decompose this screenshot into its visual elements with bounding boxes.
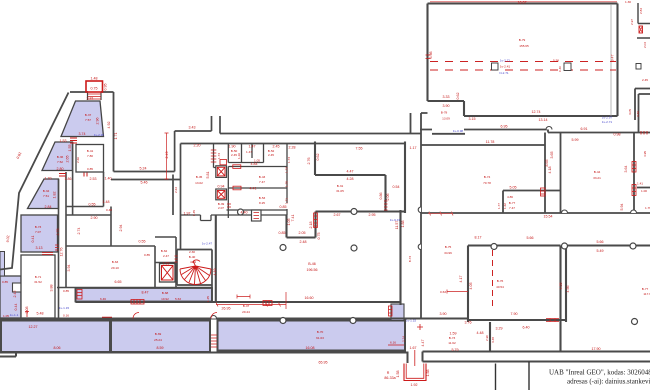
svg-text:2.31: 2.31 (87, 97, 94, 101)
svg-text:4.05: 4.05 (469, 283, 473, 290)
svg-text:31.52: 31.52 (34, 280, 42, 284)
svg-text:3.33: 3.33 (443, 95, 450, 99)
svg-text:15.54: 15.54 (544, 215, 553, 219)
svg-text:7.47: 7.47 (259, 180, 265, 184)
svg-text:B-73: B-73 (449, 336, 456, 340)
svg-text:86-33a: 86-33a (384, 376, 395, 380)
svg-text:1.59: 1.59 (450, 332, 457, 336)
svg-text:0.85: 0.85 (2, 280, 8, 284)
svg-text:B-76: B-76 (497, 279, 504, 283)
svg-text:1.77: 1.77 (497, 203, 501, 209)
svg-text:3.29: 3.29 (496, 327, 503, 331)
svg-text:6.98: 6.98 (429, 52, 433, 59)
red door marks B-45 (211, 150, 217, 162)
WC cluster walls (181, 144, 288, 221)
svg-text:11.78: 11.78 (486, 140, 495, 144)
svg-text:33.21: 33.21 (593, 176, 601, 180)
svg-text:7.07: 7.07 (35, 230, 41, 234)
svg-text:0.41: 0.41 (31, 236, 35, 243)
svg-text:19.92: 19.92 (161, 297, 169, 301)
svg-text:0.48: 0.48 (106, 208, 112, 212)
red hatch divider corridor (211, 335, 217, 347)
svg-text:B-37: B-37 (85, 113, 92, 117)
svg-text:1.71: 1.71 (285, 198, 289, 204)
svg-text:31.05: 31.05 (336, 189, 344, 193)
svg-text:2.53: 2.53 (90, 177, 97, 181)
svg-text:65.95: 65.95 (319, 361, 328, 365)
svg-text:4.84: 4.84 (251, 162, 258, 166)
svg-text:1.97: 1.97 (184, 212, 191, 216)
svg-text:4.56: 4.56 (566, 286, 570, 293)
corridor B-68 shaded (76, 288, 213, 302)
svg-text:6.46: 6.46 (100, 297, 106, 301)
svg-text:2.75: 2.75 (56, 229, 60, 236)
svg-text:2.20: 2.20 (194, 144, 201, 148)
svg-text:0.55: 0.55 (139, 240, 146, 244)
pilaster box below WC rooms (252, 210, 262, 221)
bottom walls left (0, 321, 423, 364)
svg-text:0.62: 0.62 (316, 154, 320, 161)
svg-text:B-72: B-72 (408, 255, 412, 262)
top right small rooms walls (637, 3, 650, 38)
svg-text:adresas (-ai): dainius.stankev: adresas (-ai): dainius.stankevicius (567, 378, 650, 386)
svg-text:4.95: 4.95 (643, 151, 647, 157)
svg-text:1.53: 1.53 (60, 139, 67, 143)
svg-text:B-63: B-63 (112, 260, 119, 264)
red door marks B-37 (59, 138, 87, 177)
left mid interior walls (57, 142, 212, 318)
svg-text:1.82: 1.82 (53, 192, 57, 199)
svg-text:2.84: 2.84 (45, 205, 52, 209)
svg-text:N-2.71: N-2.71 (499, 71, 509, 75)
svg-text:8.59: 8.59 (157, 346, 164, 350)
svg-text:1.05: 1.05 (287, 219, 291, 226)
svg-text:155.65: 155.65 (519, 44, 529, 48)
svg-text:12.76: 12.76 (60, 248, 64, 257)
small square right of wall (636, 64, 641, 70)
svg-text:B-31: B-31 (337, 184, 344, 188)
svg-text:4.59: 4.59 (190, 260, 196, 264)
svg-text:6.91: 6.91 (581, 127, 588, 131)
svg-text:1.73: 1.73 (285, 167, 289, 173)
svg-text:3.43: 3.43 (189, 126, 196, 130)
svg-text:5.05: 5.05 (510, 186, 517, 190)
svg-text:8.25: 8.25 (259, 201, 265, 205)
svg-text:8.65: 8.65 (545, 160, 549, 167)
red hatch boxes on right wall x=634 (632, 162, 636, 196)
red dim line top B-79 (430, 1, 617, 3)
svg-text:3.90: 3.90 (440, 312, 447, 316)
svg-text:7.80: 7.80 (87, 154, 93, 158)
svg-text:1.48: 1.48 (91, 77, 98, 81)
svg-text:4.41: 4.41 (250, 187, 257, 191)
vestibule shaded near B-70 (391, 304, 404, 321)
svg-text:1v-1.15: 1v-1.15 (59, 306, 70, 310)
svg-text:11.62: 11.62 (448, 341, 456, 345)
grey dimension line right (610, 4, 612, 116)
svg-text:UAB "Inreal GEO", kodas: 30260: UAB "Inreal GEO", kodas: 302604843, PV (549, 369, 650, 377)
svg-text:7.41: 7.41 (291, 215, 295, 222)
red hatch B-68 left end (77, 290, 82, 300)
svg-text:B-45: B-45 (196, 175, 203, 179)
svg-text:0.40: 0.40 (558, 66, 562, 72)
room B-34 shaded (28, 179, 59, 209)
svg-text:B-34: B-34 (43, 189, 50, 193)
red door marks near x=228 (227, 204, 231, 207)
svg-text:6.40: 6.40 (523, 326, 530, 330)
svg-text:8.47: 8.47 (142, 291, 149, 295)
svg-text:1.92: 1.92 (411, 383, 418, 387)
svg-text:B-74: B-74 (484, 175, 491, 179)
svg-text:13.09: 13.09 (442, 117, 450, 121)
svg-text:5.79: 5.79 (452, 348, 459, 352)
svg-text:B-77: B-77 (509, 201, 516, 205)
red tick line big room (237, 295, 250, 299)
svg-text:1.76: 1.76 (645, 206, 650, 210)
svg-text:1.41: 1.41 (637, 182, 643, 186)
corridor B-69 left shaded (1, 321, 110, 353)
svg-text:3.65: 3.65 (550, 152, 554, 159)
svg-text:7.52: 7.52 (57, 160, 63, 164)
svg-text:5.81: 5.81 (206, 172, 210, 179)
red dim line B-75 (447, 290, 468, 294)
svg-text:0.75: 0.75 (91, 87, 98, 91)
svg-text:6.65: 6.65 (115, 280, 122, 284)
svg-text:29.44: 29.44 (242, 310, 250, 314)
red hatch on wall y=132.5 right end (641, 131, 647, 135)
red hatch B-44 wall (541, 188, 546, 196)
svg-text:2.64: 2.64 (174, 187, 178, 193)
entrance stair steps (88, 94, 101, 99)
svg-text:1.30: 1.30 (625, 0, 631, 4)
shaft S3 (160, 264, 176, 283)
svg-text:1v-1.15: 1v-1.15 (406, 319, 417, 323)
outer walls top-left with diagonal (0, 92, 114, 270)
svg-text:1.17: 1.17 (410, 146, 417, 150)
svg-text:3.76: 3.76 (465, 321, 472, 325)
svg-text:1.75: 1.75 (285, 181, 289, 187)
svg-text:6.16: 6.16 (390, 341, 396, 345)
svg-text:2.65: 2.65 (66, 156, 70, 163)
svg-text:4.40: 4.40 (241, 211, 248, 215)
svg-text:2.28: 2.28 (289, 146, 296, 150)
svg-text:3.13: 3.13 (36, 246, 43, 250)
svg-text:B-75: B-75 (445, 245, 452, 249)
svg-text:1.16: 1.16 (237, 153, 241, 159)
bottom right rooms walls (421, 246, 650, 362)
svg-text:7.90: 7.90 (511, 312, 518, 316)
svg-text:0.44: 0.44 (14, 304, 18, 311)
corridor top-left walls (111, 116, 421, 215)
red ticks B-79 left wall (426, 55, 431, 59)
svg-text:2.74: 2.74 (77, 228, 81, 235)
red hatch B-77 wall (546, 319, 559, 322)
entrance stair stubs (88, 92, 102, 100)
svg-text:12.74: 12.74 (532, 110, 541, 114)
svg-text:3.05: 3.05 (628, 109, 632, 115)
svg-text:1.25: 1.25 (206, 296, 210, 302)
svg-text:117.98: 117.98 (643, 292, 650, 296)
red door arcs corridors (133, 313, 217, 319)
svg-text:4.47: 4.47 (347, 170, 354, 174)
svg-text:5.49: 5.49 (597, 249, 604, 253)
svg-text:B-62: B-62 (161, 249, 168, 253)
title block (496, 362, 650, 390)
red door hatch on x=385.5 (384, 201, 388, 210)
svg-text:5.99: 5.99 (572, 138, 579, 142)
svg-text:5.46: 5.46 (141, 181, 148, 185)
svg-text:2.42: 2.42 (13, 291, 17, 298)
svg-text:12.27: 12.27 (29, 325, 38, 329)
svg-text:B-78: B-78 (441, 111, 448, 115)
svg-text:4.17: 4.17 (459, 276, 463, 283)
svg-text:1.73: 1.73 (287, 157, 291, 163)
svg-text:1.55: 1.55 (68, 145, 72, 152)
svg-text:3.08: 3.08 (25, 307, 29, 314)
svg-text:B-44: B-44 (594, 170, 601, 174)
svg-text:1.88: 1.88 (401, 221, 405, 228)
svg-text:B-77: B-77 (642, 287, 649, 291)
room B-36 shaded (42, 142, 73, 171)
svg-text:3.15: 3.15 (469, 117, 476, 121)
svg-text:1.00: 1.00 (641, 189, 647, 193)
svg-text:B-43: B-43 (259, 175, 266, 179)
stair room walls (177, 144, 212, 303)
svg-text:6.95: 6.95 (501, 125, 508, 129)
room B-78 walls (411, 113, 650, 319)
svg-text:29.10: 29.10 (111, 266, 119, 270)
shaft S2 (216, 189, 227, 200)
svg-text:2.07: 2.07 (218, 206, 224, 210)
svg-text:B-79: B-79 (519, 38, 526, 42)
svg-text:16.08: 16.08 (306, 346, 315, 350)
svg-text:4.92: 4.92 (107, 122, 111, 129)
svg-text:1.90: 1.90 (229, 145, 236, 149)
svg-text:2.45: 2.45 (642, 78, 648, 82)
svg-text:2.04: 2.04 (643, 42, 647, 48)
big room B-46 walls (76, 142, 406, 306)
svg-text:3.46: 3.46 (636, 111, 640, 117)
svg-text:2.96: 2.96 (96, 118, 100, 125)
svg-text:7.51: 7.51 (43, 194, 49, 198)
room B-41 (76, 145, 104, 173)
svg-text:2.49: 2.49 (165, 152, 169, 159)
svg-text:34.96: 34.96 (444, 251, 452, 255)
svg-text:1.62: 1.62 (503, 203, 507, 209)
svg-text:4.47: 4.47 (421, 340, 425, 347)
columns (238, 209, 638, 325)
spiral staircase (180, 260, 211, 285)
svg-text:0.94: 0.94 (218, 185, 225, 189)
svg-text:3.48: 3.48 (491, 337, 495, 343)
red dim line left corridor (165, 133, 169, 179)
svg-text:1.47: 1.47 (249, 145, 256, 149)
red dim on wall y=213.5 (428, 212, 453, 216)
svg-text:2.47: 2.47 (163, 254, 169, 258)
svg-text:5.63: 5.63 (175, 297, 181, 301)
svg-text:3.94: 3.94 (67, 265, 71, 272)
svg-text:B-73: B-73 (35, 225, 42, 229)
svg-text:5.66: 5.66 (527, 236, 534, 240)
svg-text:0.55: 0.55 (89, 203, 96, 207)
svg-text:2.45: 2.45 (273, 145, 280, 149)
svg-text:1v-2.71: 1v-2.71 (602, 120, 613, 124)
svg-text:2.18: 2.18 (309, 222, 313, 229)
svg-text:1v-1.1: 1v-1.1 (10, 313, 19, 317)
svg-text:1.58: 1.58 (396, 371, 400, 378)
room B-71 (21, 255, 55, 318)
room B-73 shaded (21, 215, 58, 252)
svg-text:2.80: 2.80 (57, 167, 64, 171)
svg-text:0.85: 0.85 (87, 167, 93, 171)
svg-text:2.94: 2.94 (119, 225, 123, 232)
svg-text:B-41: B-41 (87, 149, 94, 153)
svg-text:1v-2.47: 1v-2.47 (202, 242, 213, 246)
svg-text:4.28: 4.28 (347, 177, 354, 181)
svg-text:0.85: 0.85 (279, 231, 286, 235)
svg-text:B-46: B-46 (308, 262, 316, 266)
svg-text:2.66: 2.66 (76, 157, 80, 163)
svg-text:1.48: 1.48 (103, 200, 110, 204)
corridor B-70 shaded (218, 321, 406, 351)
svg-text:5.24: 5.24 (140, 167, 147, 171)
red dashed partition B-76 (492, 250, 494, 310)
left sliver shaded (0, 252, 5, 277)
red hatch box top right (639, 26, 643, 33)
long wall above corridors (0, 317, 468, 319)
corridor B-69 right shaded (111, 321, 210, 353)
svg-text:B-68: B-68 (162, 291, 169, 295)
svg-text:17.90: 17.90 (592, 347, 601, 351)
svg-text:13.14: 13.14 (539, 118, 548, 122)
svg-text:2.05: 2.05 (299, 231, 306, 235)
svg-text:2.48: 2.48 (300, 240, 307, 244)
svg-text:0.54: 0.54 (393, 185, 400, 189)
svg-text:8.17: 8.17 (475, 236, 482, 240)
svg-text:2.90: 2.90 (485, 335, 489, 341)
svg-text:3.64: 3.64 (624, 166, 628, 173)
crane box 2 (564, 63, 571, 71)
shaft S1 (216, 166, 227, 178)
svg-text:1v-2.41: 1v-2.41 (500, 65, 511, 69)
svg-text:3.74: 3.74 (79, 132, 86, 136)
svg-text:B-53: B-53 (259, 196, 266, 200)
svg-text:1v-2.97: 1v-2.97 (94, 133, 105, 137)
svg-text:B-70: B-70 (317, 330, 324, 334)
svg-text:16.67: 16.67 (518, 1, 527, 5)
svg-text:B-36: B-36 (57, 155, 64, 159)
svg-text:61.63: 61.63 (316, 336, 324, 340)
svg-text:1v-2.71: 1v-2.71 (500, 59, 511, 63)
svg-text:0.16: 0.16 (63, 314, 69, 318)
svg-text:1.86: 1.86 (65, 177, 72, 181)
svg-text:0.95: 0.95 (104, 84, 108, 91)
svg-text:9.47: 9.47 (611, 55, 615, 62)
svg-text:4.18: 4.18 (548, 167, 552, 174)
svg-text:1.05: 1.05 (3, 314, 9, 318)
svg-text:13.02: 13.02 (195, 181, 203, 185)
svg-text:5.58: 5.58 (553, 59, 559, 63)
svg-text:7.57: 7.57 (85, 118, 91, 122)
svg-text:25.24: 25.24 (154, 338, 162, 342)
svg-text:5.94: 5.94 (620, 204, 624, 211)
red window hatch big room (314, 213, 318, 228)
top right room B-79 walls (428, 4, 618, 117)
room B-37 shaded (61, 101, 104, 137)
svg-text:0.63: 0.63 (440, 290, 446, 294)
svg-text:2.06: 2.06 (386, 194, 390, 201)
lift shaft bottom red (404, 350, 426, 381)
svg-text:1.58: 1.58 (426, 370, 430, 377)
svg-text:2.84: 2.84 (639, 8, 643, 14)
closet in left cluster (13, 283, 22, 292)
svg-text:8.06: 8.06 (54, 346, 61, 350)
svg-text:B-40: B-40 (189, 255, 196, 259)
svg-text:70.78: 70.78 (483, 181, 491, 185)
entrance stair box red (86, 81, 103, 92)
red door mark on corridor wall (25, 310, 112, 317)
svg-text:5.48: 5.48 (37, 312, 44, 316)
red hatch on wall y=302 (263, 301, 272, 306)
svg-text:R: R (387, 371, 390, 375)
red dashed crane lines (430, 62, 616, 71)
red door marks B-73 (42, 245, 59, 255)
svg-text:0.98: 0.98 (614, 133, 621, 137)
svg-text:0.86: 0.86 (379, 193, 383, 200)
svg-text:7.47: 7.47 (509, 206, 515, 210)
svg-text:1v-2.97: 1v-2.97 (602, 116, 613, 120)
svg-text:16.60: 16.60 (305, 296, 314, 300)
svg-text:2.97: 2.97 (630, 19, 634, 25)
svg-text:0.85: 0.85 (280, 205, 287, 209)
svg-text:2.76: 2.76 (307, 158, 311, 165)
red door marks stair room (175, 256, 178, 262)
svg-text:4.48: 4.48 (477, 331, 484, 335)
red hatch WC top (220, 160, 241, 190)
left lower shaded cluster (0, 276, 21, 318)
svg-text:2.30: 2.30 (189, 250, 195, 254)
svg-text:3.90: 3.90 (443, 104, 450, 108)
svg-text:2.67: 2.67 (334, 213, 341, 217)
red dim line B-47 band (216, 292, 286, 309)
svg-text:1.73: 1.73 (217, 153, 221, 159)
svg-text:2.90: 2.90 (91, 216, 98, 220)
svg-text:3.88: 3.88 (50, 285, 54, 292)
svg-text:B-71: B-71 (35, 275, 42, 279)
red hatch vestibule (388, 306, 423, 345)
svg-text:1.47: 1.47 (246, 150, 252, 154)
svg-text:1.70: 1.70 (45, 177, 52, 181)
svg-text:B-69: B-69 (155, 332, 162, 336)
crane box 1 (492, 63, 499, 70)
svg-text:9.02: 9.02 (6, 235, 11, 242)
svg-text:2.45: 2.45 (268, 153, 274, 157)
svg-text:0.62: 0.62 (456, 93, 460, 100)
svg-text:B-47: B-47 (243, 304, 250, 308)
svg-text:0.45: 0.45 (192, 210, 196, 216)
svg-text:26.95: 26.95 (222, 307, 231, 311)
svg-text:1v-0.47: 1v-0.47 (390, 218, 401, 222)
svg-text:7.55: 7.55 (356, 147, 363, 151)
svg-text:0.85: 0.85 (63, 289, 69, 293)
svg-text:1.40: 1.40 (105, 177, 112, 181)
svg-text:0.75: 0.75 (317, 233, 321, 240)
svg-text:4.86: 4.86 (507, 195, 513, 199)
svg-text:1.55: 1.55 (163, 262, 170, 266)
svg-text:1.67: 1.67 (410, 346, 417, 350)
svg-text:2.74: 2.74 (402, 336, 406, 342)
svg-text:2.95: 2.95 (369, 213, 376, 217)
